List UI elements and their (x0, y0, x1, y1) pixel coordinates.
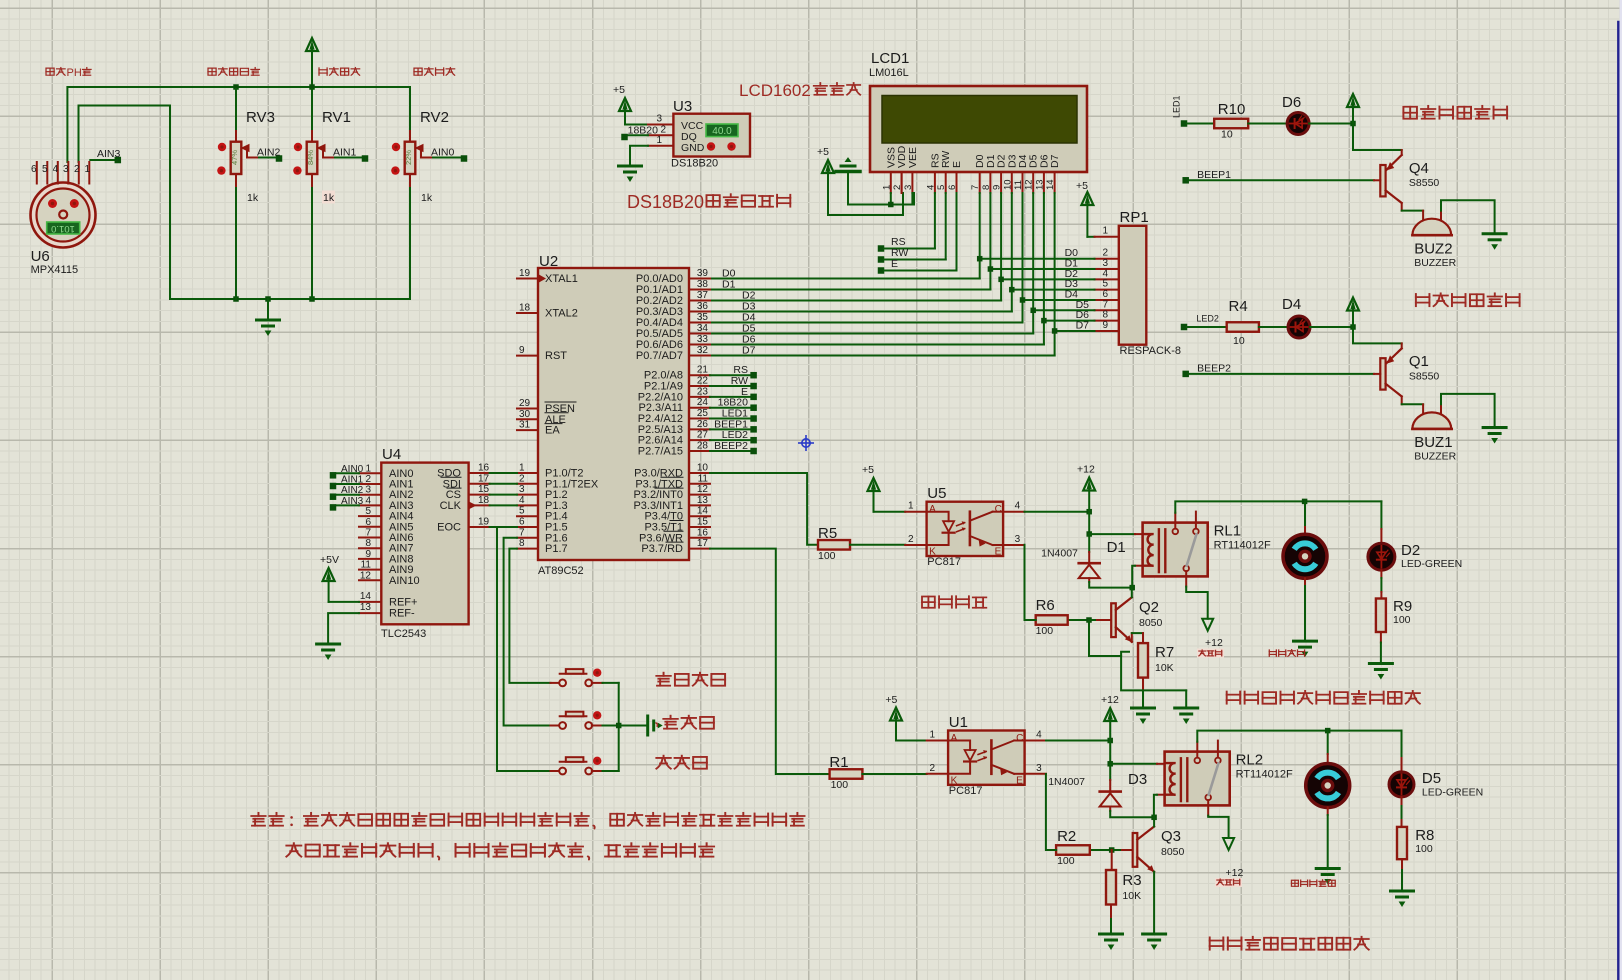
pressure sensor U6 (31, 183, 96, 248)
svg-text:R9: R9 (1393, 598, 1412, 615)
rp1 pin 9 D7 (1095, 330, 1119, 332)
power +5 top (306, 38, 318, 51)
wire R1 to U1 (862, 773, 926, 775)
svg-text:+5: +5 (1076, 180, 1088, 192)
svg-text:BUZZER: BUZZER (1414, 257, 1456, 269)
u2 pin 38 P0.1 (689, 289, 710, 291)
wire P1.7 to buttons (509, 549, 550, 683)
svg-text:11: 11 (698, 473, 709, 484)
svg-text:RL1: RL1 (1214, 523, 1242, 540)
junction D0 (977, 256, 983, 262)
wire net LED2 (710, 439, 751, 441)
svg-text:9: 9 (519, 345, 525, 356)
note line 1 (251, 813, 265, 826)
svg-text:101.0: 101.0 (51, 223, 75, 234)
svg-text:RP1: RP1 (1120, 209, 1149, 226)
wire +12 to D3 cathode (1109, 764, 1111, 780)
svg-text:18: 18 (519, 303, 531, 314)
wire coil feed RL2 (1110, 763, 1157, 765)
display U6 value (47, 222, 80, 234)
svg-text:BUZ2: BUZ2 (1414, 241, 1452, 258)
svg-text:22%: 22% (404, 150, 413, 165)
rp1 pin 8 D6 (1095, 320, 1119, 322)
svg-text:3: 3 (519, 484, 525, 495)
svg-text:2: 2 (908, 534, 914, 545)
svg-text:3: 3 (365, 485, 371, 496)
wire net E (710, 396, 751, 398)
label 模拟浑浊度 (208, 68, 216, 75)
rp1 pin 3 D1 (1095, 268, 1119, 270)
u2 pin 29 PSEN (517, 408, 538, 410)
buzzer BUZ2 (1422, 211, 1424, 225)
wire R5 to U5 (850, 544, 905, 546)
label 光耦隔离 (922, 597, 935, 608)
led D4 (1288, 316, 1310, 338)
svg-text:2: 2 (660, 125, 666, 136)
svg-text:+5: +5 (862, 464, 874, 476)
wire D5 to R8 (1401, 797, 1403, 806)
u2 pin 33 P0.6 (689, 344, 710, 346)
svg-text:3: 3 (903, 185, 914, 190)
terminal AIN0 (330, 472, 337, 479)
svg-text:BEEP1: BEEP1 (1197, 169, 1231, 181)
diode D3 1N4007 (1100, 790, 1121, 793)
push button (551, 682, 560, 684)
svg-text:34: 34 (697, 323, 709, 334)
svg-text:DS18B20: DS18B20 (627, 192, 704, 212)
wire U5 C to +12 (1025, 511, 1090, 513)
wire net BEEP1 (710, 428, 751, 430)
svg-text:3: 3 (1036, 763, 1042, 774)
label 水塔供水 (1269, 650, 1276, 656)
svg-text:PH: PH (67, 67, 82, 79)
svg-text:37: 37 (697, 290, 709, 301)
u2 pin 37 P0.2 (689, 300, 710, 302)
wire net BEEP2 (710, 450, 751, 452)
svg-text:U6: U6 (31, 248, 50, 265)
wire net D2 (1000, 193, 1002, 301)
wire D2 to R9 (1380, 570, 1382, 578)
junction D3 (1009, 287, 1015, 293)
potentiometer RV3 (235, 89, 237, 131)
label 水塔自动供水或排水模拟 (1227, 692, 1240, 704)
wire RL2 NO to rail (1197, 731, 1401, 742)
u2 pin 35 P0.4 (689, 322, 710, 324)
junction collector node Q3 (1151, 815, 1157, 821)
wire E (878, 267, 885, 274)
svg-text:GND: GND (681, 142, 705, 154)
rp1 pin 2 D0 (1095, 258, 1119, 260)
ground R9 (1369, 662, 1392, 665)
svg-text:1: 1 (85, 164, 91, 175)
junction top rail RV3 (233, 84, 239, 90)
terminal BEEP2 (1182, 371, 1189, 378)
svg-text:E: E (1016, 776, 1023, 787)
wire SDO to u2 (490, 472, 517, 474)
svg-text:D6: D6 (1282, 94, 1301, 111)
svg-text:19: 19 (478, 517, 490, 528)
u2 pin 25 P2.4 (689, 418, 710, 420)
wire R3 to gnd (1110, 905, 1112, 920)
ground under R7 (1142, 690, 1144, 708)
wire LED2 to R4 (1187, 326, 1227, 328)
label 水位声光告警 (1416, 294, 1430, 306)
u4 pin 16 SDO (469, 472, 490, 474)
svg-text:XTAL2: XTAL2 (545, 308, 578, 320)
svg-text:5: 5 (936, 185, 947, 190)
u2 pin 19 XTAL1 (517, 278, 538, 280)
value 1k RV1 (322, 191, 335, 204)
lcd pin 12 D5 (1032, 172, 1034, 193)
wire Q1 collector to buzzer (1402, 403, 1423, 405)
u2 pin 2 P1.1 (517, 483, 538, 485)
svg-text:Q2: Q2 (1139, 599, 1159, 616)
svg-text:A: A (951, 733, 958, 744)
svg-text:U5: U5 (927, 485, 946, 502)
ground motor2 (1316, 867, 1339, 870)
sheet border (1620, 0, 1622, 980)
svg-text:REF-: REF- (389, 608, 415, 620)
svg-text:10K: 10K (1155, 662, 1174, 674)
svg-text:CLK: CLK (440, 500, 462, 512)
rp1 pin 1 (1095, 236, 1119, 238)
svg-text:4: 4 (925, 185, 936, 190)
svg-text:RESPACK-8: RESPACK-8 (1120, 345, 1182, 357)
u2 pin 5 P1.4 (517, 515, 538, 517)
svg-text:19: 19 (519, 268, 531, 279)
ground R8 (1391, 890, 1414, 893)
wire D3 anode to node (1109, 807, 1111, 812)
wire R2 junction to R3 (1111, 850, 1113, 870)
svg-text:AIN1: AIN1 (341, 475, 364, 486)
svg-text:5: 5 (365, 506, 371, 517)
svg-text:LED-GREEN: LED-GREEN (1422, 787, 1483, 799)
u2 pin 8 P1.7 (517, 548, 538, 550)
wire VSS VEE gnd (848, 172, 914, 205)
svg-text:4: 4 (519, 495, 525, 506)
svg-text:8: 8 (981, 185, 992, 190)
wire RL1 coil bottom (1135, 565, 1143, 567)
u2 pin 9 RST (517, 355, 538, 357)
label 温度声光告警 (1403, 107, 1417, 119)
svg-text:1k: 1k (421, 192, 433, 204)
svg-text:LED-GREEN: LED-GREEN (1401, 558, 1462, 570)
svg-text:17: 17 (697, 538, 709, 549)
svg-text:D1: D1 (722, 279, 736, 291)
svg-text:RV1: RV1 (322, 109, 351, 126)
label 模拟PH值 (46, 68, 54, 75)
wire Q4 collector to buzzer (1402, 210, 1423, 212)
wire U6 pin2 to bottom rail (79, 106, 411, 300)
svg-text:100: 100 (1057, 855, 1075, 867)
svg-text:BEEP2: BEEP2 (1197, 363, 1231, 375)
dots U3 (707, 142, 715, 150)
svg-text:LCD1: LCD1 (871, 50, 909, 67)
u2 pin 16 P3.6 (689, 537, 710, 539)
wire R8 to gnd (1401, 859, 1403, 870)
wire +12 to D1 cathode (1088, 534, 1090, 552)
junction D6 (1041, 318, 1047, 324)
svg-text:1: 1 (1102, 226, 1108, 237)
junction D7 (1052, 328, 1058, 334)
wire net D3 (1011, 193, 1013, 312)
u2 pin 30 ALE (517, 418, 538, 420)
u4 pin 13 REF- (359, 612, 381, 614)
svg-text:24: 24 (697, 397, 709, 408)
svg-text:U1: U1 (949, 714, 968, 731)
u4 pin 4 AIN3 (359, 504, 381, 506)
u4 pin 18 CLK (469, 504, 490, 506)
u2 pin 36 P0.3 (689, 311, 710, 313)
junction bottom rail RV1 (309, 296, 315, 302)
terminal AIN3 (330, 504, 337, 511)
u4 pin 7 AIN6 (359, 537, 381, 539)
display U3 value 40.0 (706, 124, 738, 137)
lcd pin 14 D7 (1054, 172, 1056, 193)
svg-text:RST: RST (545, 350, 567, 362)
svg-text:RL2: RL2 (1236, 752, 1264, 769)
svg-text:10: 10 (1002, 179, 1013, 190)
wire BEEP1 to Q4 base (1189, 179, 1375, 181)
u2 pin 26 P2.5 (689, 428, 710, 430)
svg-text:BEEP2: BEEP2 (714, 440, 748, 452)
wire R10 to D6 (1248, 123, 1287, 125)
svg-text:16: 16 (697, 527, 709, 538)
wire SDI to u2 (490, 483, 517, 485)
svg-text:1k: 1k (247, 192, 259, 204)
transistor Q4 S8550 (1401, 150, 1403, 155)
svg-text:25: 25 (697, 408, 709, 419)
junction Q4 feed (1350, 121, 1356, 127)
wire P1.5 to buttons (497, 527, 551, 771)
wire to Q4 emitter (1353, 124, 1402, 151)
terminal LED1 (1181, 120, 1188, 127)
svg-text:17: 17 (478, 473, 490, 484)
terminal AIN3 (115, 157, 122, 164)
terminal AIN1 (362, 155, 369, 162)
svg-text:2: 2 (930, 763, 936, 774)
u2 pin 18 XTAL2 (517, 312, 538, 314)
u4 pin 12 AIN10 (359, 579, 381, 581)
u2 pin 28 P2.7 (689, 450, 710, 452)
svg-text:6: 6 (31, 164, 37, 175)
svg-text:100: 100 (831, 779, 849, 791)
svg-text:11: 11 (1013, 180, 1024, 190)
svg-text:+12: +12 (1226, 867, 1244, 879)
wire buzzer right to gnd (1441, 200, 1495, 234)
u2 pin 3 P1.2 (517, 494, 538, 496)
terminal AIN2 (276, 155, 283, 162)
ground BUZ2 (1483, 232, 1506, 235)
wire R9 to gnd (1380, 632, 1382, 643)
origin marker (798, 435, 814, 451)
svg-text:+5V: +5V (320, 554, 339, 566)
wire RL1 NO to rail (1175, 501, 1381, 512)
wire net D5 (1032, 193, 1034, 334)
u2 pin 6 P1.5 (517, 526, 538, 528)
wire RL1 common down to output (1186, 587, 1208, 619)
svg-text:1: 1 (881, 185, 892, 190)
svg-text:15: 15 (697, 517, 709, 528)
svg-text:E: E (995, 547, 1002, 558)
svg-text:100: 100 (1393, 614, 1411, 626)
transistor Q1 S8550 (1401, 343, 1403, 348)
svg-text:Q1: Q1 (1409, 353, 1429, 370)
wire P3.0 to R5 (710, 473, 818, 545)
svg-text:18B20: 18B20 (628, 125, 659, 137)
u4 pin 17 SDI (469, 483, 490, 485)
rp1 pin 5 D3 (1095, 289, 1119, 291)
svg-text:29: 29 (519, 398, 531, 409)
svg-text:5: 5 (519, 506, 525, 517)
svg-text:100: 100 (1415, 843, 1433, 855)
svg-text:40.0: 40.0 (712, 126, 732, 137)
svg-text:39: 39 (697, 268, 709, 279)
svg-text:10: 10 (1233, 335, 1245, 347)
ground right of R7 (1185, 690, 1187, 708)
wire U5 E to R6 (1025, 545, 1036, 620)
svg-text:AIN10: AIN10 (389, 575, 420, 587)
u2 pin 12 P3.2 (689, 494, 710, 496)
svg-text:9: 9 (365, 549, 371, 560)
lcd pin 6 E (956, 172, 958, 193)
wire LED1 to R10 (1187, 123, 1214, 125)
svg-text:84%: 84% (306, 150, 315, 165)
wire AIN0 to u4 (336, 472, 359, 474)
wire net D7 (1054, 193, 1056, 356)
svg-text:13: 13 (1034, 179, 1045, 190)
svg-text:14: 14 (360, 591, 372, 602)
ground buttons (646, 716, 649, 735)
terminal AIN0 (461, 155, 468, 162)
svg-text:PC817: PC817 (927, 556, 961, 568)
svg-text:12: 12 (1024, 179, 1035, 190)
svg-text:RV3: RV3 (246, 109, 275, 126)
rp1 pin 4 D2 (1095, 278, 1119, 280)
svg-text:R6: R6 (1036, 597, 1055, 614)
resistor R10 (1214, 119, 1248, 129)
svg-text:100: 100 (1036, 625, 1054, 637)
u2 pin 1 P1.0 (517, 472, 538, 474)
junction D4 (1020, 297, 1026, 303)
ground BUZ1 (1483, 426, 1506, 429)
u2 pin 39 P0.0 (689, 278, 710, 280)
ground Q3 emitter (1143, 933, 1166, 936)
terminal AIN2 (330, 493, 337, 500)
wire top rail (67, 87, 410, 162)
resistor R2 (1056, 845, 1090, 855)
svg-text:10K: 10K (1122, 890, 1141, 902)
svg-text:AIN2: AIN2 (341, 485, 364, 496)
svg-text:6: 6 (365, 517, 371, 528)
u4 pin 1 AIN0 (359, 472, 381, 474)
svg-text:P3.7/RD: P3.7/RD (641, 543, 683, 555)
svg-text:A: A (929, 504, 936, 515)
junction bottom rail RV3 (233, 296, 239, 302)
svg-text:BUZ1: BUZ1 (1414, 434, 1452, 451)
wire VDD +5 (828, 193, 903, 215)
svg-text:7: 7 (519, 527, 525, 538)
label 水塔加热或降温模拟 (1210, 937, 1224, 949)
svg-text:4: 4 (365, 495, 371, 506)
wire net D1 (989, 193, 991, 290)
svg-text:9: 9 (992, 185, 1003, 190)
note line 2 (286, 843, 301, 856)
svg-text:32: 32 (697, 345, 709, 356)
junction motor top (1302, 499, 1308, 505)
wire CS to u2 (490, 494, 517, 496)
wire AIN1 to u4 (336, 483, 359, 485)
junction Q2 base (1086, 617, 1092, 623)
label 继电器 bottom (1215, 878, 1242, 887)
ground REF- (317, 643, 340, 646)
u4 pin 9 AIN8 (359, 558, 381, 560)
svg-text:3: 3 (656, 114, 662, 125)
svg-text:R7: R7 (1155, 644, 1174, 661)
resistor R3 10K (1106, 870, 1116, 905)
wire REF- ground (328, 613, 359, 644)
svg-text:U3: U3 (673, 98, 692, 115)
rp1 pin 6 D4 (1095, 299, 1119, 301)
terminal LED2 (1181, 324, 1188, 331)
resistor R9 (1376, 599, 1386, 633)
svg-text:S8550: S8550 (1409, 371, 1440, 383)
u4 pin 5 AIN4 (359, 515, 381, 517)
u2 pin 31 EA (517, 429, 538, 431)
junction button mid (616, 723, 622, 729)
label 减按键 (656, 756, 670, 769)
ground R3 (1100, 933, 1123, 936)
svg-text:14: 14 (697, 506, 709, 517)
u2 pin 10 P3.0 (689, 472, 710, 474)
svg-text:K: K (951, 776, 958, 787)
svg-text:3: 3 (1015, 534, 1021, 545)
u2 pin 17 P3.7 (689, 548, 710, 550)
svg-text:R4: R4 (1229, 298, 1248, 315)
svg-text:7: 7 (970, 185, 981, 190)
u2 pin 7 P1.6 (517, 537, 538, 539)
svg-text:4: 4 (1036, 730, 1042, 741)
svg-text:BUZZER: BUZZER (1414, 451, 1456, 463)
svg-text:1: 1 (908, 501, 914, 512)
wire RS (878, 245, 885, 252)
resistor R6 (1036, 615, 1068, 625)
wire net D6 (1043, 193, 1045, 345)
svg-text:8050: 8050 (1139, 617, 1163, 629)
push button (551, 770, 560, 772)
svg-text:6: 6 (947, 185, 958, 190)
label 加按键 (656, 723, 657, 726)
svg-text:35: 35 (697, 312, 709, 323)
lcd pin 10 D3 (1011, 172, 1013, 193)
wire to ground mid button (619, 725, 648, 727)
wire AIN3 (90, 159, 115, 161)
wire net D4 (1022, 193, 1024, 323)
svg-text:P1.7: P1.7 (545, 543, 568, 555)
svg-text:LED2: LED2 (1196, 314, 1219, 324)
wire coil feed RL1 (1089, 533, 1135, 535)
ground motor1 (1294, 640, 1317, 643)
wire net D0 (979, 193, 981, 279)
svg-text:3: 3 (63, 164, 69, 175)
svg-text:D2: D2 (1401, 542, 1420, 559)
lcd pin 9 D2 (1000, 172, 1002, 193)
wire to Q1 emitter (1353, 327, 1402, 343)
wire net LED1 (710, 418, 751, 420)
u4 pin 11 AIN9 (359, 569, 381, 571)
diode D1 1N4007 (1079, 562, 1100, 565)
svg-text:R5: R5 (818, 525, 837, 542)
